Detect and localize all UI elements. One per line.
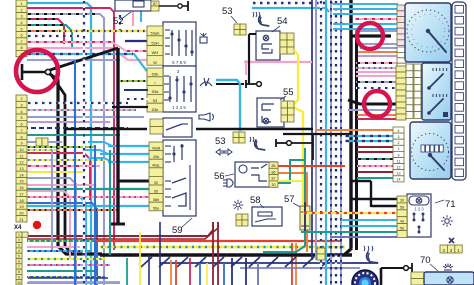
wire: black second vertical bbox=[355, 36, 358, 250]
wire: drop from bus bbox=[213, 257, 224, 267]
wire: teal at lighter bbox=[304, 148, 306, 206]
wire: pink X4 pin 3 bbox=[27, 246, 80, 248]
svg-text:56: 56 bbox=[154, 189, 158, 193]
wire: gray pin 15 bbox=[27, 178, 76, 285]
svg-text:1: 1 bbox=[20, 2, 22, 6]
wire: red drop bbox=[175, 260, 177, 285]
icon: turn arrows bbox=[216, 149, 224, 155]
svg-text:87: 87 bbox=[153, 2, 157, 6]
wire: cyan to switch 59 pin 49aL bbox=[108, 161, 150, 163]
connector 53 mid bbox=[233, 132, 239, 138]
wire: black ground diagonal to bus bbox=[50, 48, 118, 70]
wire: yellow-teal dotted pin 9 bbox=[27, 149, 60, 151]
wire: yellow from 56 pin 87 bbox=[278, 180, 303, 182]
wire: teal-black dashed from pin 5 bbox=[27, 25, 72, 48]
wire: cyan to switch 59 pin 49a bbox=[100, 153, 150, 155]
wire: blue drop bbox=[199, 263, 201, 285]
icon: sun 71 bbox=[445, 219, 450, 224]
wire: gray to cluster bbox=[360, 43, 398, 45]
wire: red elbow down bbox=[291, 243, 293, 285]
wire: cyan-blue dashed from pin 10 bbox=[27, 54, 149, 72]
wire: pink-crimson dotted to cluster bbox=[357, 165, 394, 167]
wire: gray bottom left bbox=[28, 281, 120, 283]
switch 58 pins bbox=[236, 214, 242, 220]
wire: black riser bbox=[370, 181, 372, 207]
wire: drop from bus bbox=[285, 257, 296, 267]
svg-text:7: 7 bbox=[20, 40, 22, 44]
wire: drop from bus bbox=[321, 257, 332, 267]
svg-text:l: l bbox=[155, 80, 156, 85]
fuel needle bbox=[429, 99, 443, 113]
svg-text:2: 2 bbox=[398, 141, 400, 145]
svg-text:1: 1 bbox=[398, 147, 400, 151]
wire: maroon to cluster bbox=[357, 171, 394, 173]
inline connector on harness bbox=[317, 248, 325, 254]
highlight circle top right bbox=[357, 23, 383, 49]
wire: cyan to cluster bbox=[333, 3, 398, 5]
wire: gray pin 4 bbox=[27, 116, 144, 118]
wire: black trunk elbow to bus bbox=[344, 248, 352, 255]
svg-text:53b: 53b bbox=[152, 72, 159, 77]
svg-text:49a: 49a bbox=[153, 155, 159, 159]
wire: violet to cluster bbox=[358, 55, 398, 57]
svg-text:14: 14 bbox=[19, 173, 23, 177]
svg-text:W: W bbox=[153, 60, 157, 65]
svg-text:6 7 8 9: 6 7 8 9 bbox=[172, 60, 186, 65]
switch 53 lower pins bbox=[147, 68, 163, 77]
wire: pink to cluster bbox=[356, 75, 398, 77]
lighter 57 body bbox=[300, 206, 310, 230]
wire: to switch contact bbox=[159, 5, 177, 7]
wire: pink-teal dotted pin 3 bbox=[27, 109, 136, 111]
wire: blue channel right bbox=[159, 222, 161, 285]
wire: navy-dash vertical from pin 7 bbox=[27, 36, 84, 285]
wire: black to 71 bbox=[352, 198, 397, 201]
wire: drop from bus bbox=[267, 257, 278, 267]
horn contact pins bbox=[150, 119, 163, 127]
wire: cyan merge a bbox=[88, 142, 112, 146]
wire: red pin 11 bbox=[27, 153, 90, 200]
svg-text:16: 16 bbox=[19, 186, 23, 190]
switch 70 contact bbox=[404, 266, 409, 271]
svg-text:71: 71 bbox=[445, 199, 456, 210]
wire: teal from relay 56 pin 30 bbox=[278, 160, 305, 183]
svg-text:5: 5 bbox=[18, 254, 20, 258]
icon: X mark bbox=[449, 238, 454, 243]
switch 59 pins bbox=[149, 142, 163, 151]
wire: cyan pin 18 bbox=[27, 197, 86, 285]
wire: orange drop bbox=[170, 260, 172, 285]
wire: black to relay 54 bbox=[249, 33, 256, 35]
switch 71 box bbox=[407, 194, 431, 237]
wire: white-navy dashed top right bbox=[252, 2, 334, 4]
svg-text:49: 49 bbox=[400, 219, 404, 223]
wire: red from 56 bbox=[278, 165, 345, 167]
wire: cyan dotted X4 pin 4 bbox=[27, 250, 90, 252]
cluster connector pink cells bbox=[397, 5, 406, 11]
wire: orange long to cluster bbox=[316, 129, 394, 131]
svg-text:56: 56 bbox=[400, 226, 404, 230]
wire: pink-red to cluster bbox=[355, 18, 398, 20]
wire: pink to switch 53 pin W bbox=[27, 48, 148, 60]
wire: teal dotted X4 pin 2 bbox=[27, 240, 100, 242]
wire: gray-dash vertical bbox=[340, 0, 342, 285]
gauge: tachometer bbox=[405, 3, 451, 62]
svg-text:2: 2 bbox=[20, 8, 22, 12]
wire: gray to cluster bbox=[355, 30, 398, 32]
svg-text:X4: X4 bbox=[14, 225, 22, 231]
wire: cyan to switch 59 pin 56a bbox=[27, 205, 150, 207]
wire: pink pin 16 bbox=[27, 184, 95, 186]
wire: dark red from X4 pin 1 bbox=[27, 222, 213, 236]
svg-text:70: 70 bbox=[420, 255, 431, 266]
relay 54 box bbox=[256, 31, 280, 60]
wire: yellow pin 14 bbox=[27, 171, 85, 173]
svg-text:2: 2 bbox=[20, 97, 22, 101]
wire: violet dotted X4 pin 6 bbox=[27, 264, 110, 266]
relay 52 box bbox=[115, 0, 151, 11]
wire: gray to cluster bbox=[360, 47, 398, 49]
svg-text:7: 7 bbox=[18, 265, 20, 269]
highlight circle left bbox=[16, 50, 58, 92]
svg-text:55: 55 bbox=[283, 87, 294, 98]
wire: cyan to cluster bbox=[333, 8, 398, 10]
svg-text:4: 4 bbox=[20, 110, 22, 114]
cluster right pin column bbox=[452, 2, 466, 180]
wire: black trunk right bbox=[349, 0, 352, 248]
svg-text:15: 15 bbox=[19, 180, 23, 184]
wire: pink to 53 area bbox=[245, 60, 247, 62]
wire: cyan-navy to cluster bbox=[345, 140, 394, 142]
wire: white-navy dashed vertical bbox=[335, 0, 337, 285]
speedometer needle bbox=[430, 155, 444, 170]
wire: navy drop bbox=[257, 263, 259, 285]
svg-text:53: 53 bbox=[153, 98, 158, 103]
wire: crimson to cluster bbox=[357, 118, 398, 120]
switch 53 upper section box bbox=[163, 22, 196, 66]
svg-text:4: 4 bbox=[20, 21, 22, 25]
cluster connector white cells bbox=[397, 47, 406, 52]
wire: cyan from X3 pin 1 bbox=[27, 3, 91, 285]
gauge: speedometer bbox=[410, 122, 451, 179]
wire: yellow drop bbox=[206, 263, 208, 285]
svg-text:9: 9 bbox=[18, 276, 20, 280]
wire: teal to 71 bbox=[301, 231, 397, 233]
svg-text:53a: 53a bbox=[152, 89, 159, 94]
wire: green dotted to pin l bbox=[120, 80, 148, 82]
connector 3 2 1 bbox=[440, 245, 447, 253]
svg-text:13: 13 bbox=[19, 167, 23, 171]
relay 55 box bbox=[257, 98, 284, 127]
wire: pink-red dashed pin 13 bbox=[27, 165, 100, 167]
svg-text:1 2 3: 1 2 3 bbox=[414, 207, 424, 212]
wire: blue vertical bbox=[74, 60, 76, 285]
wire: maroon to cluster bbox=[357, 146, 394, 148]
wire: yellow drop bbox=[139, 232, 141, 285]
svg-text:58b: 58b bbox=[153, 198, 159, 202]
svg-text:59: 59 bbox=[172, 225, 183, 236]
svg-text:56: 56 bbox=[214, 171, 225, 182]
wire: orange-black dashed from pin 6 bbox=[27, 30, 120, 32]
svg-text:53ah: 53ah bbox=[151, 31, 160, 36]
wire: drop from bus bbox=[231, 257, 242, 267]
wire: cyan to cluster bbox=[333, 23, 398, 25]
tachometer needle bbox=[428, 31, 446, 52]
switch 53 lower section box bbox=[163, 66, 196, 112]
wire: drop from bus bbox=[159, 257, 170, 267]
svg-text:53H: 53H bbox=[151, 40, 158, 45]
svg-text:3: 3 bbox=[20, 104, 22, 108]
wire: cyan top right bbox=[252, 8, 329, 12]
connector strip middle bbox=[16, 95, 27, 101]
svg-text:13: 13 bbox=[397, 172, 401, 176]
svg-text:19: 19 bbox=[19, 205, 23, 209]
svg-text:1 2 4 5: 1 2 4 5 bbox=[172, 105, 186, 110]
wire: yellow-teal dotted to switch 53 pin 53ah bbox=[58, 30, 148, 32]
ground terminal G1 bbox=[21, 64, 24, 80]
wire: gray-black dashed to cluster bbox=[356, 81, 398, 83]
wire: orange to cluster bbox=[357, 114, 398, 116]
svg-text:87: 87 bbox=[272, 177, 276, 181]
wire: cyan to 71 bbox=[341, 219, 397, 221]
wire: cyan vertical bbox=[325, 0, 327, 285]
svg-text:49aR: 49aR bbox=[152, 146, 161, 150]
wire: blue dotted X4 pin 8 bbox=[27, 276, 105, 278]
switch 71 pins bbox=[397, 196, 407, 203]
relay 52 pins bbox=[151, 1, 159, 6]
svg-text:3: 3 bbox=[18, 244, 20, 248]
wire: white-navy dashed to cluster bbox=[356, 87, 398, 89]
odometer bbox=[421, 145, 425, 152]
icon: rays 70 bbox=[443, 264, 453, 268]
wire: yellow vertical from relay 55 bbox=[293, 107, 303, 213]
switch 59 contacts bbox=[165, 145, 171, 147]
wire: blue vertical bbox=[94, 145, 96, 285]
wire: white-navy dashed vertical bbox=[320, 0, 322, 285]
wire: drop from bus bbox=[195, 257, 206, 267]
svg-text:49aL: 49aL bbox=[152, 164, 160, 168]
svg-text:1: 1 bbox=[18, 233, 20, 237]
wire: teal drop bbox=[245, 258, 247, 285]
svg-text:5: 5 bbox=[20, 27, 22, 31]
svg-text:6: 6 bbox=[20, 34, 22, 38]
relay 54 pins bbox=[280, 33, 287, 40]
wire: blue pin 19 bbox=[27, 203, 97, 285]
wire: cyan to switch 59 pin 49aR bbox=[108, 145, 150, 147]
wire: yellow-teal dotted long feed bbox=[100, 246, 345, 248]
svg-text:52: 52 bbox=[113, 16, 124, 27]
wire: teal-black to cluster bbox=[357, 158, 394, 160]
wire: black highlighted 2 bbox=[348, 100, 398, 104]
switch 59 box bbox=[163, 140, 196, 216]
icon: washer bbox=[200, 37, 207, 43]
wire: cyan to cluster bbox=[333, 13, 398, 15]
switch 53 lower contacts bbox=[169, 76, 171, 102]
wire: black bus bbox=[100, 253, 352, 257]
icon: heated seat mid bbox=[255, 140, 265, 150]
wire: pink-red dotted to switch 59 pin 56b bbox=[27, 196, 150, 198]
svg-text:53: 53 bbox=[222, 6, 233, 17]
horn button bbox=[275, 139, 277, 147]
svg-text:9: 9 bbox=[398, 153, 400, 157]
wire: pink stub top bbox=[132, 0, 134, 26]
wire: black to 53e pin bbox=[112, 106, 148, 108]
highlight circle mid right bbox=[364, 91, 390, 117]
wire: navy drop bbox=[231, 258, 233, 285]
connector X3 strip top bbox=[16, 0, 27, 6]
wire: black to switch 59 pin 30 bbox=[118, 180, 150, 183]
icon: wiper bbox=[200, 78, 212, 86]
svg-text:56a: 56a bbox=[153, 207, 159, 211]
wire: black to 71 second bbox=[371, 205, 397, 207]
wire: black trunk vertical bbox=[116, 48, 119, 224]
wire: black long mid bbox=[65, 128, 147, 131]
wire: drop from bus bbox=[141, 257, 152, 267]
wire: blue drop bbox=[223, 263, 225, 285]
wire: teal X4 pin 7 bbox=[27, 270, 95, 272]
svg-text:4: 4 bbox=[18, 249, 20, 253]
svg-text:17: 17 bbox=[19, 192, 23, 196]
switch 53 upper contacts bbox=[171, 30, 173, 56]
svg-text:53: 53 bbox=[215, 136, 226, 147]
wire: orange dotted pin 20 bbox=[27, 209, 118, 211]
svg-text:2: 2 bbox=[18, 238, 20, 242]
cluster connector white cells 2 bbox=[393, 127, 404, 133]
wire: gray X4 pin 9 bbox=[27, 282, 120, 284]
svg-text:3: 3 bbox=[398, 135, 400, 139]
temp needle bbox=[429, 74, 443, 88]
wire: orange to cluster bbox=[358, 51, 398, 53]
wire: yellow-red dashed to 71 bbox=[303, 212, 397, 214]
wire: green dotted pin 10 bbox=[27, 146, 95, 148]
svg-text:7: 7 bbox=[20, 129, 22, 133]
wire: drop from bus bbox=[249, 257, 260, 267]
icon: heated seat bottom bbox=[367, 252, 378, 263]
wire: blue to pin 53a bbox=[124, 89, 148, 91]
wire: white-blue dashed pin 2 bbox=[27, 102, 128, 104]
wire: blue channel left bbox=[148, 255, 150, 285]
connector 53 top bbox=[234, 24, 240, 30]
svg-text:12: 12 bbox=[397, 166, 401, 170]
wire: navy vertical bbox=[311, 0, 313, 260]
gauge: fuel and temp bbox=[422, 63, 451, 120]
switch 53 upper pins bbox=[147, 26, 163, 36]
svg-text:21: 21 bbox=[19, 218, 23, 222]
wire: cyan loop to 53 connector bbox=[216, 80, 240, 131]
motor 70 armature bbox=[352, 270, 378, 285]
svg-text:3: 3 bbox=[20, 15, 22, 19]
wire: pink-black dashed to cluster bbox=[356, 62, 398, 64]
wire: yellow-blue dotted pin 12 bbox=[27, 159, 105, 161]
svg-text:5: 5 bbox=[20, 116, 22, 120]
svg-text:30: 30 bbox=[272, 183, 276, 187]
red dot marker bbox=[33, 221, 41, 229]
svg-text:11: 11 bbox=[397, 159, 401, 163]
wire: violet pin 5 bbox=[27, 121, 110, 123]
wire: teal to cluster bbox=[357, 177, 394, 179]
wire: drop from bus bbox=[177, 257, 188, 267]
svg-text:8: 8 bbox=[18, 270, 20, 274]
wire: cyan-navy to cluster bbox=[345, 135, 394, 137]
wire: black highlighted to cluster bbox=[352, 34, 391, 37]
wire: dark red pair drop bbox=[212, 222, 214, 285]
wire: pink under 54 bbox=[245, 62, 247, 75]
wire: yellow-teal dotted X4 pin 5 bbox=[27, 258, 105, 260]
switch 56 pins bbox=[269, 162, 278, 168]
svg-text:20: 20 bbox=[19, 211, 23, 215]
wire: red-black dashed from pin 4 bbox=[27, 19, 64, 44]
wire: gray bottom line bbox=[240, 267, 360, 269]
wire: crimson drop bbox=[189, 258, 191, 285]
stop switch bbox=[245, 80, 247, 88]
wire: teal vertical bbox=[109, 150, 111, 255]
wire: orange vertical bbox=[278, 173, 307, 252]
wire: pink-red dashed to switch 53 pin WH bbox=[27, 42, 148, 51]
wire: drop from bus bbox=[303, 257, 314, 267]
wire: red main feed bbox=[95, 240, 340, 242]
relay 55 pins bbox=[281, 101, 288, 108]
svg-text:18: 18 bbox=[19, 199, 23, 203]
wire: maroon to cluster bbox=[357, 151, 394, 153]
svg-text:8: 8 bbox=[20, 135, 22, 139]
wire: pink to cluster bbox=[356, 71, 398, 73]
wire: pink-blue dotted to cluster bbox=[356, 67, 398, 69]
wire: gray-black dashed from pin 3 bbox=[27, 14, 104, 285]
wire: cyan to cluster bbox=[333, 28, 398, 30]
svg-text:30: 30 bbox=[400, 199, 404, 203]
wire: cyan merge c bbox=[88, 158, 112, 162]
svg-text:54: 54 bbox=[277, 16, 288, 27]
icon: headlight bbox=[227, 179, 233, 187]
wire: white-navy dashed to pin 53 bbox=[126, 98, 148, 100]
wire: dark red parallel bbox=[27, 222, 218, 239]
svg-text:30: 30 bbox=[154, 181, 158, 185]
wire: black horn feed bbox=[283, 133, 352, 135]
svg-text:4: 4 bbox=[398, 129, 400, 133]
svg-text:12: 12 bbox=[19, 161, 23, 165]
wire: pink pin 17 bbox=[27, 191, 70, 260]
wire: cyan stub top bbox=[140, 0, 142, 22]
cluster mid white cells bbox=[406, 64, 413, 71]
wire: blue bottom left bbox=[28, 277, 108, 279]
svg-text:14: 14 bbox=[397, 178, 401, 182]
wire: black trunk T-end bbox=[111, 223, 125, 226]
wire: cyan merge b bbox=[84, 150, 108, 154]
wire: blue-black dashed pin 6 bbox=[27, 127, 128, 129]
svg-text:10: 10 bbox=[19, 148, 23, 152]
svg-text:8: 8 bbox=[20, 46, 22, 50]
cluster connector yellow cells bbox=[396, 66, 406, 72]
switch contact symbol bbox=[178, 4, 182, 8]
wire: red from pin 2 bbox=[27, 8, 114, 250]
connector X4 strip bbox=[16, 232, 22, 237]
svg-text:9: 9 bbox=[20, 142, 22, 146]
lamp 70 pins bbox=[411, 272, 424, 279]
wire: cyan to 71 bbox=[341, 225, 397, 227]
wire: gray to 71 bbox=[330, 236, 397, 238]
svg-text:58: 58 bbox=[250, 195, 261, 206]
wire: teal to switch 59 pin 56 bbox=[27, 188, 150, 190]
svg-text:6: 6 bbox=[18, 260, 20, 264]
wire: black to stop switch bbox=[216, 83, 244, 85]
lamp 70 box bbox=[424, 272, 474, 285]
svg-text:58: 58 bbox=[400, 206, 404, 210]
wire: teal drop bbox=[126, 258, 128, 285]
wire: gray vertical bbox=[315, 0, 317, 260]
icon: sun lamp 58 bbox=[236, 203, 240, 207]
wire: black branch vertical bbox=[52, 76, 72, 254]
wire: black to switch 70 bbox=[380, 268, 383, 285]
